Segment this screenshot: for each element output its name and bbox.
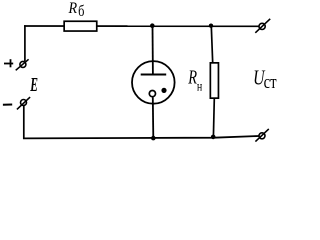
- svg-text:н: н: [197, 78, 203, 94]
- tube cathode circle: [149, 91, 155, 97]
- node junction top of load: [209, 24, 213, 28]
- svg-text:ст: ст: [264, 71, 277, 92]
- terminal minus input: [17, 97, 30, 109]
- label R ballast: [68, 0, 85, 20]
- node junction top of tube: [150, 23, 155, 28]
- terminal plus input: [16, 59, 29, 70]
- label plus polarity: [4, 59, 13, 67]
- wire left input riser (plus side): [24, 25, 26, 61]
- wire load resistor top lead: [211, 26, 212, 63]
- terminal output bottom: [255, 129, 268, 142]
- label R load: [187, 65, 202, 94]
- tube VD stabilitron envelope: [132, 61, 175, 104]
- wire left input drop (minus side): [23, 106, 25, 139]
- node junction bottom of tube: [151, 136, 156, 141]
- svg-text:б: б: [78, 3, 84, 21]
- tube gas-fill dot: [161, 88, 166, 93]
- terminal output top: [255, 19, 270, 33]
- wire top rail: [24, 25, 259, 27]
- svg-text:R: R: [187, 65, 197, 88]
- tube anode bar: [141, 74, 167, 76]
- resistor R ballast (box): [64, 21, 97, 31]
- node junction bottom of load: [211, 135, 216, 140]
- label minus polarity: [3, 104, 12, 106]
- label U stabilized output: [253, 66, 277, 92]
- wire anode lead from top rail: [152, 26, 154, 74]
- resistor R load (box): [210, 63, 218, 98]
- svg-text:R: R: [68, 0, 78, 17]
- svg-text:E: E: [30, 73, 39, 96]
- wire cathode lead to bottom rail: [152, 97, 155, 138]
- wire bottom rail: [23, 136, 259, 138]
- wire load resistor bottom lead: [212, 99, 215, 138]
